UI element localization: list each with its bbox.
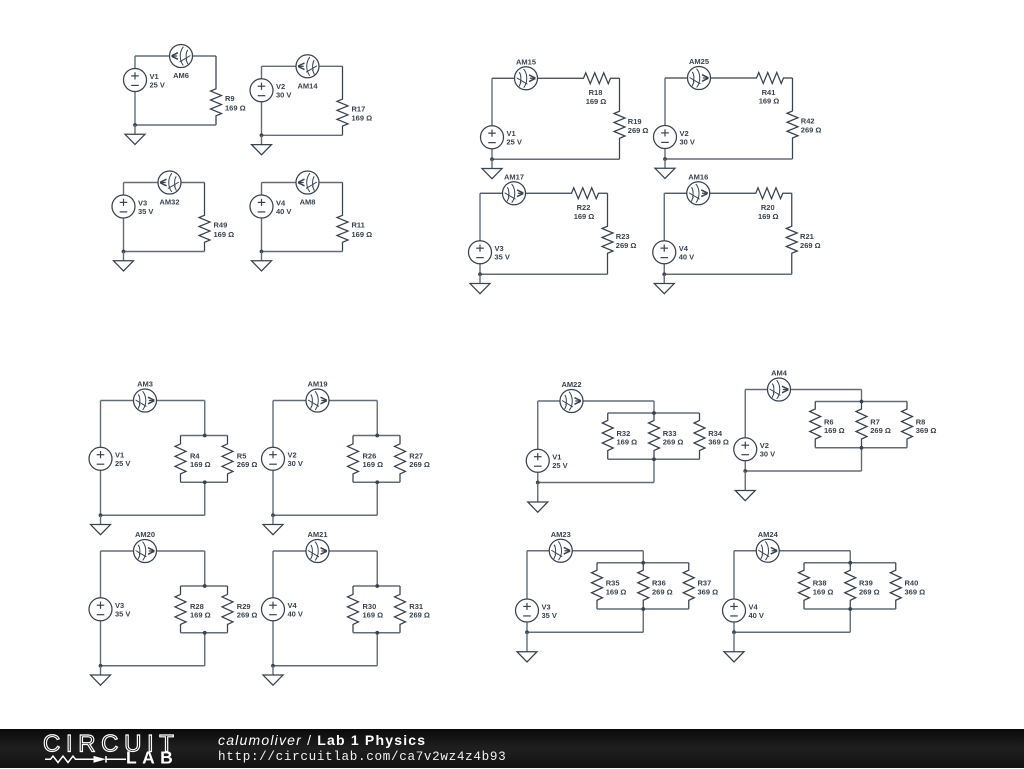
svg-text:169 Ω: 169 Ω [758, 212, 779, 221]
svg-text:R49: R49 [214, 221, 228, 230]
svg-text:R22: R22 [577, 203, 591, 212]
svg-text:169 Ω: 169 Ω [813, 587, 834, 596]
wire drop AM20 [204, 551, 206, 586]
resistor R5 269 &#937; [222, 436, 233, 483]
svg-text:269 Ω: 269 Ω [663, 438, 684, 447]
wire bottom R49 [124, 251, 205, 253]
svg-text:169 Ω: 169 Ω [617, 438, 638, 447]
svg-text:369 Ω: 369 Ω [708, 438, 729, 447]
ammeter AM22 [560, 390, 583, 413]
resistor R21 269 &#937; [786, 193, 797, 274]
svg-text:R40: R40 [905, 579, 919, 588]
svg-text:25 V: 25 V [115, 459, 130, 468]
wire top AM3 [101, 400, 205, 402]
wire bottom R42 [665, 158, 793, 160]
node V1-gnd [490, 157, 494, 161]
ammeter AM4 [768, 378, 791, 401]
ground V2 [735, 471, 755, 501]
resistor R27 269 &#937; [395, 436, 406, 483]
wire bottom V1 [101, 514, 205, 516]
svg-text:R18: R18 [589, 88, 603, 97]
wire left V1 [537, 401, 539, 483]
node V1-gnd [99, 513, 103, 517]
svg-text:269 Ω: 269 Ω [409, 611, 430, 620]
wire bottom R21 [664, 273, 792, 275]
svg-text:269 Ω: 269 Ω [859, 587, 880, 596]
node V3-gnd [99, 664, 103, 668]
wire par-top R26 [353, 435, 400, 437]
svg-text:269 Ω: 269 Ω [800, 241, 821, 250]
svg-text:169 Ω: 169 Ω [363, 460, 384, 469]
svg-text:AM22: AM22 [561, 380, 581, 389]
wire par-top R35 [597, 562, 689, 564]
ground V2 [655, 159, 675, 179]
wire par-top R28 [181, 585, 228, 587]
CircuitLab logo [40, 729, 240, 769]
node V4-gnd [271, 664, 275, 668]
svg-text:R41: R41 [762, 88, 776, 97]
resistor R22 169 &#937; [480, 188, 608, 199]
wire top AM8 [262, 182, 343, 184]
wire bottom V1 [538, 482, 654, 484]
wire par-bottom R26 [353, 481, 400, 483]
node bottom R39 [848, 607, 852, 611]
wire top AM32 [124, 182, 205, 184]
resistor R7 269 &#937; [856, 402, 867, 448]
ground V4 [252, 252, 272, 272]
svg-text:R31: R31 [409, 602, 423, 611]
svg-text:R29: R29 [237, 602, 251, 611]
resistor R33 269 &#937; [649, 413, 660, 459]
voltage source V1 [89, 447, 130, 470]
wire drop AM23 [642, 551, 644, 563]
svg-text:R37: R37 [698, 579, 712, 588]
svg-text:R23: R23 [616, 232, 630, 241]
resistor R18 169 &#937; [492, 73, 620, 84]
ammeter AM17 [503, 182, 526, 205]
wire top AM23 [527, 550, 643, 552]
svg-text:269 Ω: 269 Ω [870, 426, 891, 435]
voltage source V1 [124, 69, 165, 92]
svg-text:R36: R36 [652, 579, 666, 588]
svg-text:AM24: AM24 [758, 530, 779, 539]
ammeter AM23 [549, 539, 572, 562]
wire left V2 [272, 401, 274, 516]
ammeter AM21 [306, 540, 329, 563]
svg-text:AM16: AM16 [688, 172, 708, 181]
voltage source V3 [89, 598, 130, 621]
svg-text:AM4: AM4 [771, 369, 788, 378]
node V3-gnd [122, 250, 126, 254]
resistor R29 269 &#937; [222, 586, 233, 633]
svg-text:R34: R34 [708, 429, 723, 438]
svg-text:AM15: AM15 [516, 57, 536, 66]
svg-text:25 V: 25 V [507, 138, 522, 147]
svg-text:169 Ω: 169 Ω [352, 230, 373, 239]
wire left V2 [744, 390, 746, 472]
node bottom R7 [860, 446, 864, 450]
node V2-gnd [663, 157, 667, 161]
wire bottom V4 [734, 631, 850, 633]
wire left V4 [261, 183, 263, 252]
wire par-top R4 [181, 435, 228, 437]
logo resistor+diode squiggle [45, 756, 126, 763]
ammeter AM16 [687, 182, 710, 205]
resistor R35 169 &#937; [592, 563, 603, 609]
voltage source V1 [526, 449, 567, 472]
wire par-bottom R6 [815, 447, 907, 449]
svg-text:35 V: 35 V [138, 207, 153, 216]
svg-text:AM20: AM20 [135, 530, 155, 539]
svg-text:30 V: 30 V [288, 459, 303, 468]
svg-text:269 Ω: 269 Ω [628, 126, 649, 135]
svg-text:40 V: 40 V [288, 610, 303, 619]
node bottom R30 [375, 631, 379, 635]
svg-text:AM32: AM32 [159, 198, 179, 207]
wire drop2 R28 [204, 633, 206, 666]
ground V3 [114, 252, 134, 272]
node top R39 [848, 561, 852, 565]
svg-text:AM19: AM19 [307, 380, 327, 389]
wire bottom V4 [273, 665, 377, 667]
svg-text:269 Ω: 269 Ω [616, 241, 637, 250]
svg-text:R5: R5 [237, 451, 247, 460]
svg-text:R38: R38 [813, 579, 827, 588]
ammeter AM15 [515, 67, 538, 90]
resistor R28 169 &#937; [175, 586, 186, 633]
svg-text:R19: R19 [628, 117, 642, 126]
resistor R32 169 &#937; [602, 413, 613, 459]
ammeter AM32 [158, 171, 181, 194]
wire par-bottom R30 [353, 632, 400, 634]
svg-text:R33: R33 [663, 429, 677, 438]
wire left V1 [134, 56, 136, 125]
wire top AM4 [745, 389, 861, 391]
node bottom R26 [375, 480, 379, 484]
ground V2 [252, 135, 272, 155]
svg-text:R7: R7 [870, 417, 880, 426]
wire par-top R32 [608, 412, 700, 414]
voltage source V3 [469, 241, 510, 264]
wire bottom R19 [492, 158, 620, 160]
node bottom R4 [203, 480, 207, 484]
voltage source V2 [262, 447, 303, 470]
node V1-gnd [133, 123, 137, 127]
wire par-bottom R38 [804, 608, 896, 610]
svg-text:40 V: 40 V [276, 207, 291, 216]
ammeter AM25 [688, 67, 711, 90]
wire left V3 [479, 193, 481, 274]
node V3-gnd [478, 272, 482, 276]
wire drop2 R4 [204, 482, 206, 515]
resistor R42 269 &#937; [787, 78, 798, 159]
footer bar [0, 729, 1024, 769]
wire bottom V2 [745, 470, 861, 472]
svg-text:AM17: AM17 [504, 172, 524, 181]
svg-text:R6: R6 [824, 417, 834, 426]
voltage source V3 [112, 195, 153, 218]
wire drop AM3 [204, 401, 206, 436]
svg-text:AM25: AM25 [689, 57, 709, 66]
svg-text:369 Ω: 369 Ω [698, 587, 719, 596]
svg-text:R42: R42 [801, 117, 815, 126]
resistor R39 269 &#937; [845, 563, 856, 609]
node V2-gnd [260, 133, 264, 137]
svg-text:R9: R9 [225, 94, 235, 103]
svg-text:169 Ω: 169 Ω [352, 114, 373, 123]
voltage source V2 [250, 79, 291, 102]
wire left V2 [261, 66, 263, 135]
svg-text:AM3: AM3 [137, 380, 153, 389]
svg-text:LAB: LAB [126, 747, 178, 767]
wire bottom V2 [273, 514, 377, 516]
resistor R49 169 &#937; [199, 183, 210, 252]
ammeter AM20 [134, 540, 157, 563]
svg-text:R39: R39 [859, 579, 873, 588]
wire drop AM4 [861, 390, 863, 402]
node V4-gnd [732, 630, 736, 634]
svg-text:R26: R26 [363, 451, 377, 460]
resistor R26 169 &#937; [348, 436, 359, 483]
wire top AM22 [538, 400, 654, 402]
resistor R23 269 &#937; [602, 193, 613, 274]
node top R28 [203, 584, 207, 588]
resistor R20 169 &#937; [664, 188, 792, 199]
voltage source V4 [262, 598, 303, 621]
wire left V3 [100, 551, 102, 666]
wire top AM20 [101, 550, 205, 552]
voltage source V2 [734, 438, 775, 461]
ground V1 [91, 515, 111, 535]
node top R36 [641, 561, 645, 565]
wire par-bottom R4 [181, 481, 228, 483]
wire drop AM22 [653, 401, 655, 413]
wire par-bottom R28 [181, 632, 228, 634]
svg-text:AM6: AM6 [173, 71, 189, 80]
resistor R40 369 &#937; [890, 563, 901, 609]
wire drop2 R7 [861, 448, 863, 471]
svg-text:169 Ω: 169 Ω [190, 460, 211, 469]
voltage source V1 [481, 126, 522, 149]
wire top AM19 [273, 400, 377, 402]
svg-text:R11: R11 [352, 221, 365, 230]
wire left V3 [123, 183, 125, 252]
resistor R19 269 &#937; [614, 78, 625, 159]
wire par-top R30 [353, 585, 400, 587]
svg-text:169 Ω: 169 Ω [363, 611, 384, 620]
svg-text:169 Ω: 169 Ω [824, 426, 845, 435]
ammeter AM19 [306, 389, 329, 412]
svg-text:269 Ω: 269 Ω [237, 460, 258, 469]
wire drop2 R33 [653, 459, 655, 482]
ground V1 [125, 125, 145, 145]
svg-text:169 Ω: 169 Ω [225, 103, 246, 112]
node V3-gnd [525, 630, 529, 634]
wire par-top R38 [804, 562, 896, 564]
wire drop2 R36 [642, 609, 644, 632]
ground V4 [654, 274, 674, 294]
svg-text:169 Ω: 169 Ω [214, 230, 235, 239]
svg-text:R8: R8 [916, 417, 926, 426]
ammeter AM3 [134, 389, 157, 412]
svg-text:R30: R30 [363, 602, 377, 611]
wire bottom R11 [262, 251, 343, 253]
wire top AM24 [734, 550, 850, 552]
wire drop2 R39 [849, 609, 851, 632]
node V4-gnd [662, 272, 666, 276]
svg-text:40 V: 40 V [749, 611, 764, 620]
wire par-top R6 [815, 401, 907, 403]
node top R30 [375, 584, 379, 588]
voltage source V3 [516, 599, 557, 622]
ground V1 [528, 483, 548, 513]
resistor R38 169 &#937; [799, 563, 810, 609]
svg-text:169 Ω: 169 Ω [574, 212, 595, 221]
svg-text:AM14: AM14 [297, 81, 318, 90]
node V4-gnd [260, 250, 264, 254]
svg-text:169 Ω: 169 Ω [606, 587, 627, 596]
wire drop AM21 [376, 551, 378, 586]
svg-text:35 V: 35 V [542, 611, 557, 620]
ammeter AM6 [170, 45, 193, 68]
wire left V4 [272, 551, 274, 666]
wire par-bottom R32 [608, 458, 700, 460]
svg-text:35 V: 35 V [115, 610, 130, 619]
svg-text:30 V: 30 V [276, 91, 291, 100]
ground V4 [263, 666, 283, 686]
wire drop AM19 [376, 401, 378, 436]
node V2-gnd [271, 513, 275, 517]
ground V3 [91, 666, 111, 686]
svg-text:169 Ω: 169 Ω [586, 97, 607, 106]
wire bottom R17 [262, 134, 343, 136]
svg-text:269 Ω: 269 Ω [409, 460, 430, 469]
svg-text:R32: R32 [617, 429, 631, 438]
ammeter AM24 [756, 539, 779, 562]
svg-text:369 Ω: 369 Ω [916, 426, 937, 435]
ammeter AM14 [296, 55, 319, 78]
ground V4 [724, 632, 744, 662]
wire par-bottom R35 [597, 608, 689, 610]
ground V3 [517, 632, 537, 662]
wire bottom R23 [480, 273, 608, 275]
wire drop2 R30 [376, 633, 378, 666]
resistor R36 269 &#937; [638, 563, 649, 609]
node bottom R33 [652, 457, 656, 461]
wire top AM14 [262, 65, 343, 67]
node top R33 [652, 411, 656, 415]
wire left V4 [733, 551, 735, 633]
svg-text:169 Ω: 169 Ω [759, 97, 780, 106]
svg-text:R17: R17 [352, 104, 366, 113]
wire drop AM24 [849, 551, 851, 563]
node V2-gnd [743, 469, 747, 473]
resistor R41 169 &#937; [665, 73, 793, 84]
node V1-gnd [536, 481, 540, 485]
resistor R31 269 &#937; [395, 586, 406, 633]
svg-text:35 V: 35 V [495, 253, 510, 262]
wire left V1 [100, 401, 102, 516]
wire bottom V3 [527, 631, 643, 633]
svg-text:AM21: AM21 [307, 530, 327, 539]
node top R4 [203, 434, 207, 438]
resistor R4 169 &#937; [175, 436, 186, 483]
svg-text:R20: R20 [761, 203, 775, 212]
svg-text:30 V: 30 V [680, 137, 695, 146]
wire bottom V3 [101, 665, 205, 667]
svg-text:R27: R27 [409, 451, 423, 460]
wire left V3 [526, 551, 528, 633]
svg-text:AM23: AM23 [551, 530, 571, 539]
ground V1 [482, 159, 502, 179]
ground V2 [263, 515, 283, 535]
svg-text:40 V: 40 V [679, 253, 694, 262]
svg-text:30 V: 30 V [760, 450, 775, 459]
svg-text:R28: R28 [190, 602, 204, 611]
svg-text:269 Ω: 269 Ω [237, 611, 258, 620]
voltage source V4 [653, 241, 694, 264]
resistor R34 369 &#937; [694, 413, 705, 459]
svg-text:169 Ω: 169 Ω [190, 611, 211, 620]
svg-text:269 Ω: 269 Ω [652, 587, 673, 596]
wire left V2 [664, 78, 666, 159]
ammeter AM8 [296, 171, 319, 194]
resistor R9 169 &#937; [211, 56, 222, 125]
svg-text:R21: R21 [800, 232, 814, 241]
svg-text:AM8: AM8 [300, 198, 316, 207]
node bottom R36 [641, 607, 645, 611]
ground V3 [470, 274, 490, 294]
node bottom R28 [203, 631, 207, 635]
wire top AM6 [135, 55, 216, 57]
wire left V1 [491, 78, 493, 159]
resistor R17 169 &#937; [337, 66, 348, 135]
wire bottom R9 [135, 124, 216, 126]
resistor R11 169 &#937; [337, 183, 348, 252]
voltage source V4 [250, 195, 291, 218]
voltage source V2 [654, 126, 695, 149]
svg-text:R4: R4 [190, 451, 200, 460]
svg-text:369 Ω: 369 Ω [905, 587, 926, 596]
resistor R30 169 &#937; [348, 586, 359, 633]
resistor R37 369 &#937; [683, 563, 694, 609]
svg-text:25 V: 25 V [552, 461, 567, 470]
wire top AM21 [273, 550, 377, 552]
wire left V4 [663, 193, 665, 274]
svg-text:269 Ω: 269 Ω [801, 126, 822, 135]
svg-text:25 V: 25 V [150, 80, 165, 89]
wire drop2 R26 [376, 482, 378, 515]
node top R26 [375, 434, 379, 438]
voltage source V4 [723, 599, 764, 622]
node top R7 [860, 400, 864, 404]
svg-text:R35: R35 [606, 579, 620, 588]
resistor R8 369 &#937; [902, 402, 913, 448]
resistor R6 169 &#937; [810, 402, 821, 448]
footer text [218, 732, 426, 748]
